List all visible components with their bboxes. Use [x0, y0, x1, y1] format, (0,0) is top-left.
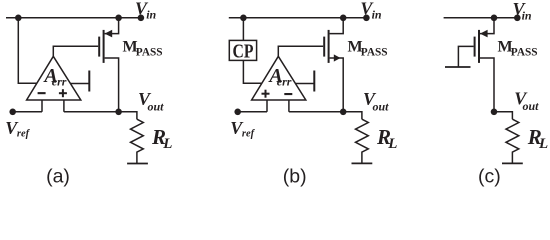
svg-text:in: in	[372, 8, 382, 22]
junction dot on Vin rail left (b)	[240, 14, 247, 21]
svg-text:(c): (c)	[478, 166, 501, 188]
wire: Vout rail to load (b)	[289, 112, 362, 119]
wire: Vin top rail (b)	[229, 17, 367, 19]
transistor M_PASS gate bar (a)	[98, 37, 100, 57]
wire: Vin top rail (a)	[6, 17, 141, 19]
junction dot on Vin rail at pass device (a)	[115, 14, 122, 21]
ground (b)	[352, 162, 373, 164]
svg-text:PASS: PASS	[361, 47, 388, 59]
terminal dot Vin (a)	[138, 14, 145, 21]
transistor M_PASS channel bar (b)	[328, 30, 330, 63]
wire: drain lead down to Vout (c)	[480, 58, 494, 112]
junction dot on Vin rail at pass device (c)	[491, 14, 498, 21]
svg-text:ref: ref	[17, 129, 31, 140]
ground of gate (c)	[445, 66, 471, 68]
wire: gate to ground (c)	[458, 46, 473, 67]
wire: source lead down to Vout (b)	[330, 58, 344, 112]
junction dot Vout (b)	[340, 109, 347, 116]
plus sign of op-amp (b) vertical	[265, 90, 267, 98]
svg-text:err: err	[277, 74, 292, 88]
terminal dot Vref (b)	[234, 109, 241, 116]
svg-text:L: L	[538, 136, 548, 152]
wire: CP box to amp left edge (b)	[243, 60, 261, 83]
wire: source lead to Vin rail (c)	[480, 18, 494, 34]
wire: amp right-edge stub (b)	[296, 83, 315, 85]
wire: Vin rail to CP box (b)	[242, 18, 244, 41]
svg-text:err: err	[52, 74, 67, 88]
transistor M_PASS gate bar (b)	[323, 37, 325, 57]
svg-text:PASS: PASS	[136, 47, 163, 59]
wire: source lead to Vin rail (a)	[105, 18, 119, 34]
charge pump CP box (b)	[229, 40, 256, 60]
wire: inverting input down (b)	[288, 100, 290, 112]
arrow of PMOS source (a)	[105, 30, 113, 38]
junction dot Vout (a)	[115, 109, 122, 116]
wire: inverting input down (a)	[41, 100, 43, 112]
resistor R_L zigzag (a)	[131, 119, 144, 163]
terminal dot Vref (a)	[9, 109, 16, 116]
transistor M_PASS channel bar (c)	[478, 30, 480, 63]
wire: feedback from Vin rail to amp left edge (a)	[18, 18, 36, 84]
wire: op-amp output to gate (b)	[278, 46, 323, 56]
junction dot Vout (c)	[491, 109, 498, 116]
svg-text:CP: CP	[233, 42, 254, 63]
wire: Vin top rail (c)	[444, 17, 518, 19]
terminal dot Vin (b)	[363, 14, 370, 21]
plus sign of op-amp (a) horizontal	[59, 92, 67, 94]
svg-text:L: L	[162, 136, 172, 152]
plus sign of op-amp (b) horizontal	[262, 93, 270, 95]
wire: amp right-edge stub (a)	[71, 83, 90, 85]
transistor M_PASS gate bar (c)	[474, 37, 476, 57]
svg-text:in: in	[522, 8, 532, 22]
resistor R_L zigzag (b)	[356, 119, 369, 163]
svg-text:in: in	[146, 8, 156, 22]
wire: drain lead down to Vout (a)	[105, 58, 119, 112]
ground (c)	[502, 162, 523, 164]
junction dot on Vin rail at pass device (b)	[340, 14, 347, 21]
wire: drain lead to Vin rail (b)	[330, 18, 344, 34]
terminal bar on right-edge stub (b)	[313, 71, 315, 92]
wire: non-inverting input down (a)	[63, 100, 65, 112]
svg-text:out: out	[523, 99, 540, 113]
svg-text:ref: ref	[242, 129, 256, 140]
svg-text:out: out	[373, 99, 390, 113]
wire: Vout rail to load (c)	[494, 112, 512, 119]
transistor M_PASS channel bar (a)	[103, 30, 105, 63]
arrow of NMOS source (b)	[334, 54, 341, 61]
wire: op-amp output to gate (a)	[53, 46, 98, 56]
minus sign of op-amp (b)	[284, 93, 292, 95]
plus sign of op-amp (a) vertical	[62, 89, 64, 97]
op-amp U1 triangle (a)	[27, 56, 81, 100]
svg-text:PASS: PASS	[511, 47, 538, 59]
wire: Vref rail (b)	[238, 111, 267, 113]
junction dot on Vin rail left (a)	[15, 14, 22, 21]
arrow of PMOS source (c)	[480, 30, 488, 38]
wire: non-inverting input down (b)	[266, 100, 268, 112]
ground (a)	[127, 163, 148, 165]
resistor R_L zigzag (c)	[506, 119, 519, 163]
terminal bar on right-edge stub (a)	[88, 71, 90, 92]
wire: Vout rail to load (a)	[64, 112, 137, 119]
svg-text:(b): (b)	[283, 166, 307, 188]
svg-text:out: out	[148, 99, 165, 113]
terminal dot Vin (c)	[514, 14, 521, 21]
minus sign of op-amp (a)	[38, 92, 46, 94]
svg-text:(a): (a)	[46, 166, 70, 188]
op-amp U2 triangle (b)	[252, 56, 306, 100]
wire: Vref rail (a)	[13, 111, 42, 113]
svg-text:L: L	[387, 136, 397, 152]
